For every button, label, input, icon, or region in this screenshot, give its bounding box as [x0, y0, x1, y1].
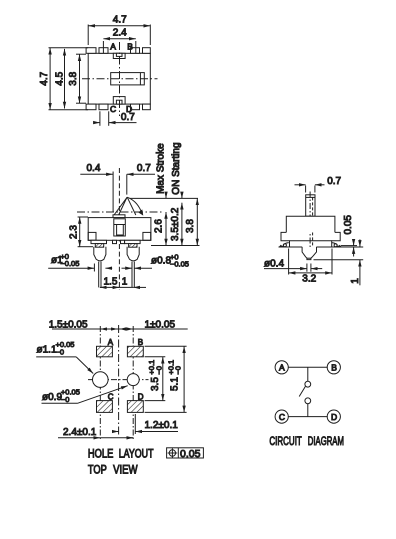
foot left	[91, 240, 107, 243]
centerline right hole column	[132, 326, 134, 441]
svg-text:3.5: 3.5	[150, 377, 161, 391]
solder pad left (hatched)	[95, 244, 103, 248]
body upper block	[286, 216, 335, 232]
terminal pin A1 top-left corner	[86, 48, 96, 54]
post right (boss)	[127, 247, 139, 261]
stem hidden line	[312, 197, 314, 246]
body lower outline with flanges	[281, 232, 290, 247]
dim 1.5 / 1 bottom	[100, 286, 105, 288]
terminal C	[275, 410, 288, 423]
post tip extension line	[314, 259, 364, 261]
svg-text:5.1: 5.1	[169, 377, 180, 391]
svg-text:ø0.8: ø0.8	[151, 255, 171, 266]
extension line lever apex	[126, 174, 128, 194]
svg-text:D: D	[331, 412, 337, 422]
dim 4.5 vertical	[64, 49, 66, 109]
contact lower	[305, 398, 311, 404]
svg-text:1.5: 1.5	[104, 276, 118, 287]
svg-text:0.7: 0.7	[137, 163, 151, 174]
actuator knob	[111, 73, 145, 85]
terminal pin bottom-right corner	[143, 104, 151, 110]
dim 4.7 vertical left	[49, 47, 89, 49]
svg-text:1: 1	[350, 278, 361, 284]
svg-text:HOLE: HOLE	[88, 448, 114, 460]
contact upper	[305, 381, 311, 387]
svg-text:1.2±0.1: 1.2±0.1	[145, 420, 179, 431]
switch body	[88, 218, 151, 241]
center tabs bottom	[113, 240, 117, 243]
lever base block	[113, 215, 125, 218]
svg-text:VIEW: VIEW	[113, 464, 138, 476]
svg-text:−0: −0	[154, 366, 163, 375]
svg-text:B: B	[331, 363, 337, 373]
foot right	[125, 240, 141, 243]
svg-text:C: C	[279, 412, 285, 422]
svg-text:DIAGRAM: DIAGRAM	[308, 436, 344, 448]
svg-text:−0: −0	[174, 366, 183, 375]
pad B (hatched)	[127, 346, 143, 357]
terminal pin C	[99, 104, 108, 110]
post left pin	[98, 262, 100, 288]
seating plane extension	[151, 245, 200, 247]
window on body	[114, 219, 126, 236]
svg-text:−0: −0	[61, 395, 70, 404]
switch body outline	[88, 53, 150, 104]
centerline horizontal	[82, 78, 158, 80]
svg-text:4.7: 4.7	[39, 71, 50, 85]
center tab bottom	[113, 97, 125, 105]
terminal A	[275, 361, 288, 374]
svg-text:Max Stroke: Max Stroke	[155, 143, 166, 194]
position tolerance frame	[167, 448, 204, 458]
solder pad right (hatched)	[129, 244, 137, 248]
terminal pin A	[99, 48, 108, 54]
dim line 3.8	[196, 198, 198, 245]
pad C (hatched)	[97, 401, 113, 413]
dim 3.8 vertical	[76, 53, 86, 55]
svg-text:D: D	[138, 392, 144, 401]
svg-text:1: 1	[122, 276, 128, 287]
lever apex extension line	[130, 197, 199, 199]
hole ø0.9	[127, 374, 139, 386]
terminal hook right	[332, 243, 338, 246]
hole ø1.1	[93, 372, 109, 388]
svg-text:CIRCUIT: CIRCUIT	[269, 436, 301, 448]
dim 2.4 horizontal	[102, 41, 104, 53]
stem centerline	[309, 192, 311, 250]
terminal pin bottom-left corner	[86, 104, 96, 110]
dim 3.5 +0.1/-0	[145, 356, 166, 358]
svg-text:−0.05: −0.05	[170, 260, 189, 269]
svg-text:3.8: 3.8	[68, 71, 79, 85]
svg-text:B: B	[138, 338, 143, 347]
svg-text:ON Starting: ON Starting	[171, 142, 182, 194]
svg-text:A: A	[279, 363, 285, 373]
dim 5.1 +0.1/-0	[145, 345, 187, 347]
pad A (hatched)	[97, 346, 113, 357]
svg-text:0.05: 0.05	[343, 215, 354, 235]
terminal hook left	[283, 243, 289, 246]
svg-text:3.5±0.2: 3.5±0.2	[170, 207, 181, 241]
svg-text:3.8: 3.8	[185, 219, 196, 233]
centerline left hole column	[99, 326, 101, 441]
wire A-B	[288, 366, 328, 368]
lever stroke arc	[127, 197, 142, 214]
svg-text:0.4: 0.4	[87, 163, 101, 174]
svg-text:−0: −0	[56, 348, 65, 357]
svg-text:A: A	[108, 338, 114, 347]
center post	[302, 247, 316, 260]
svg-text:ø0.4: ø0.4	[264, 259, 284, 270]
svg-text:4.5: 4.5	[54, 71, 65, 85]
svg-text:LAYOUT: LAYOUT	[119, 448, 154, 460]
svg-text:2.6: 2.6	[153, 219, 164, 233]
svg-text:4.7: 4.7	[113, 14, 127, 25]
actuator stem	[306, 195, 315, 216]
svg-text:C: C	[110, 104, 116, 114]
dim 1.2±0.1	[134, 414, 136, 434]
wire junction to contact	[307, 367, 309, 381]
dim line ON Starting / 3.5±0.2	[181, 196, 183, 198]
dim line Max Stroke / 2.6	[165, 194, 167, 199]
lever arm (tilted)	[114, 197, 127, 215]
post left (boss)	[94, 247, 106, 261]
svg-text:C: C	[108, 392, 114, 401]
dim 0.7 bottom	[99, 111, 101, 126]
terminal pin D	[131, 104, 140, 110]
svg-text:2.4±0.1: 2.4±0.1	[63, 427, 97, 438]
svg-text:0.7: 0.7	[327, 176, 341, 187]
post right pin	[131, 262, 133, 288]
centerline vertical	[119, 42, 121, 116]
svg-text:2.4: 2.4	[113, 28, 127, 39]
svg-text:0.05: 0.05	[180, 448, 201, 460]
terminal D	[327, 410, 340, 423]
switch blade (open)	[299, 386, 305, 396]
wire contact to C-D	[307, 404, 309, 417]
svg-text:TOP: TOP	[88, 464, 107, 476]
extension line lever rest position	[112, 172, 114, 213]
side flange left	[88, 232, 96, 240]
terminal pin B	[131, 48, 140, 54]
centerline horizontal lever pivot	[77, 211, 163, 213]
svg-text:A: A	[110, 42, 116, 52]
svg-text:B: B	[127, 42, 133, 52]
dim 2.3 left	[78, 216, 88, 218]
svg-text:0.7: 0.7	[121, 112, 135, 123]
terminal B	[327, 361, 340, 374]
side flange right	[143, 232, 151, 240]
center tab top	[113, 53, 125, 58]
svg-text:ø1.1: ø1.1	[37, 344, 57, 355]
centerline vertical	[118, 168, 120, 290]
wire C-D	[288, 416, 328, 418]
seating plane line	[279, 246, 303, 248]
dim 3.2	[288, 249, 290, 275]
svg-text:ø0.9: ø0.9	[42, 392, 62, 403]
centerline main vertical	[118, 325, 120, 437]
terminal pin top-right corner	[143, 48, 151, 54]
pad D (hatched)	[127, 401, 143, 413]
centerline horizontal	[88, 379, 149, 381]
svg-text:3.2: 3.2	[302, 274, 316, 285]
dim 4.7 horizontal top	[87, 25, 89, 46]
svg-text:2.3: 2.3	[68, 225, 79, 239]
svg-text:−0.05: −0.05	[60, 259, 79, 268]
